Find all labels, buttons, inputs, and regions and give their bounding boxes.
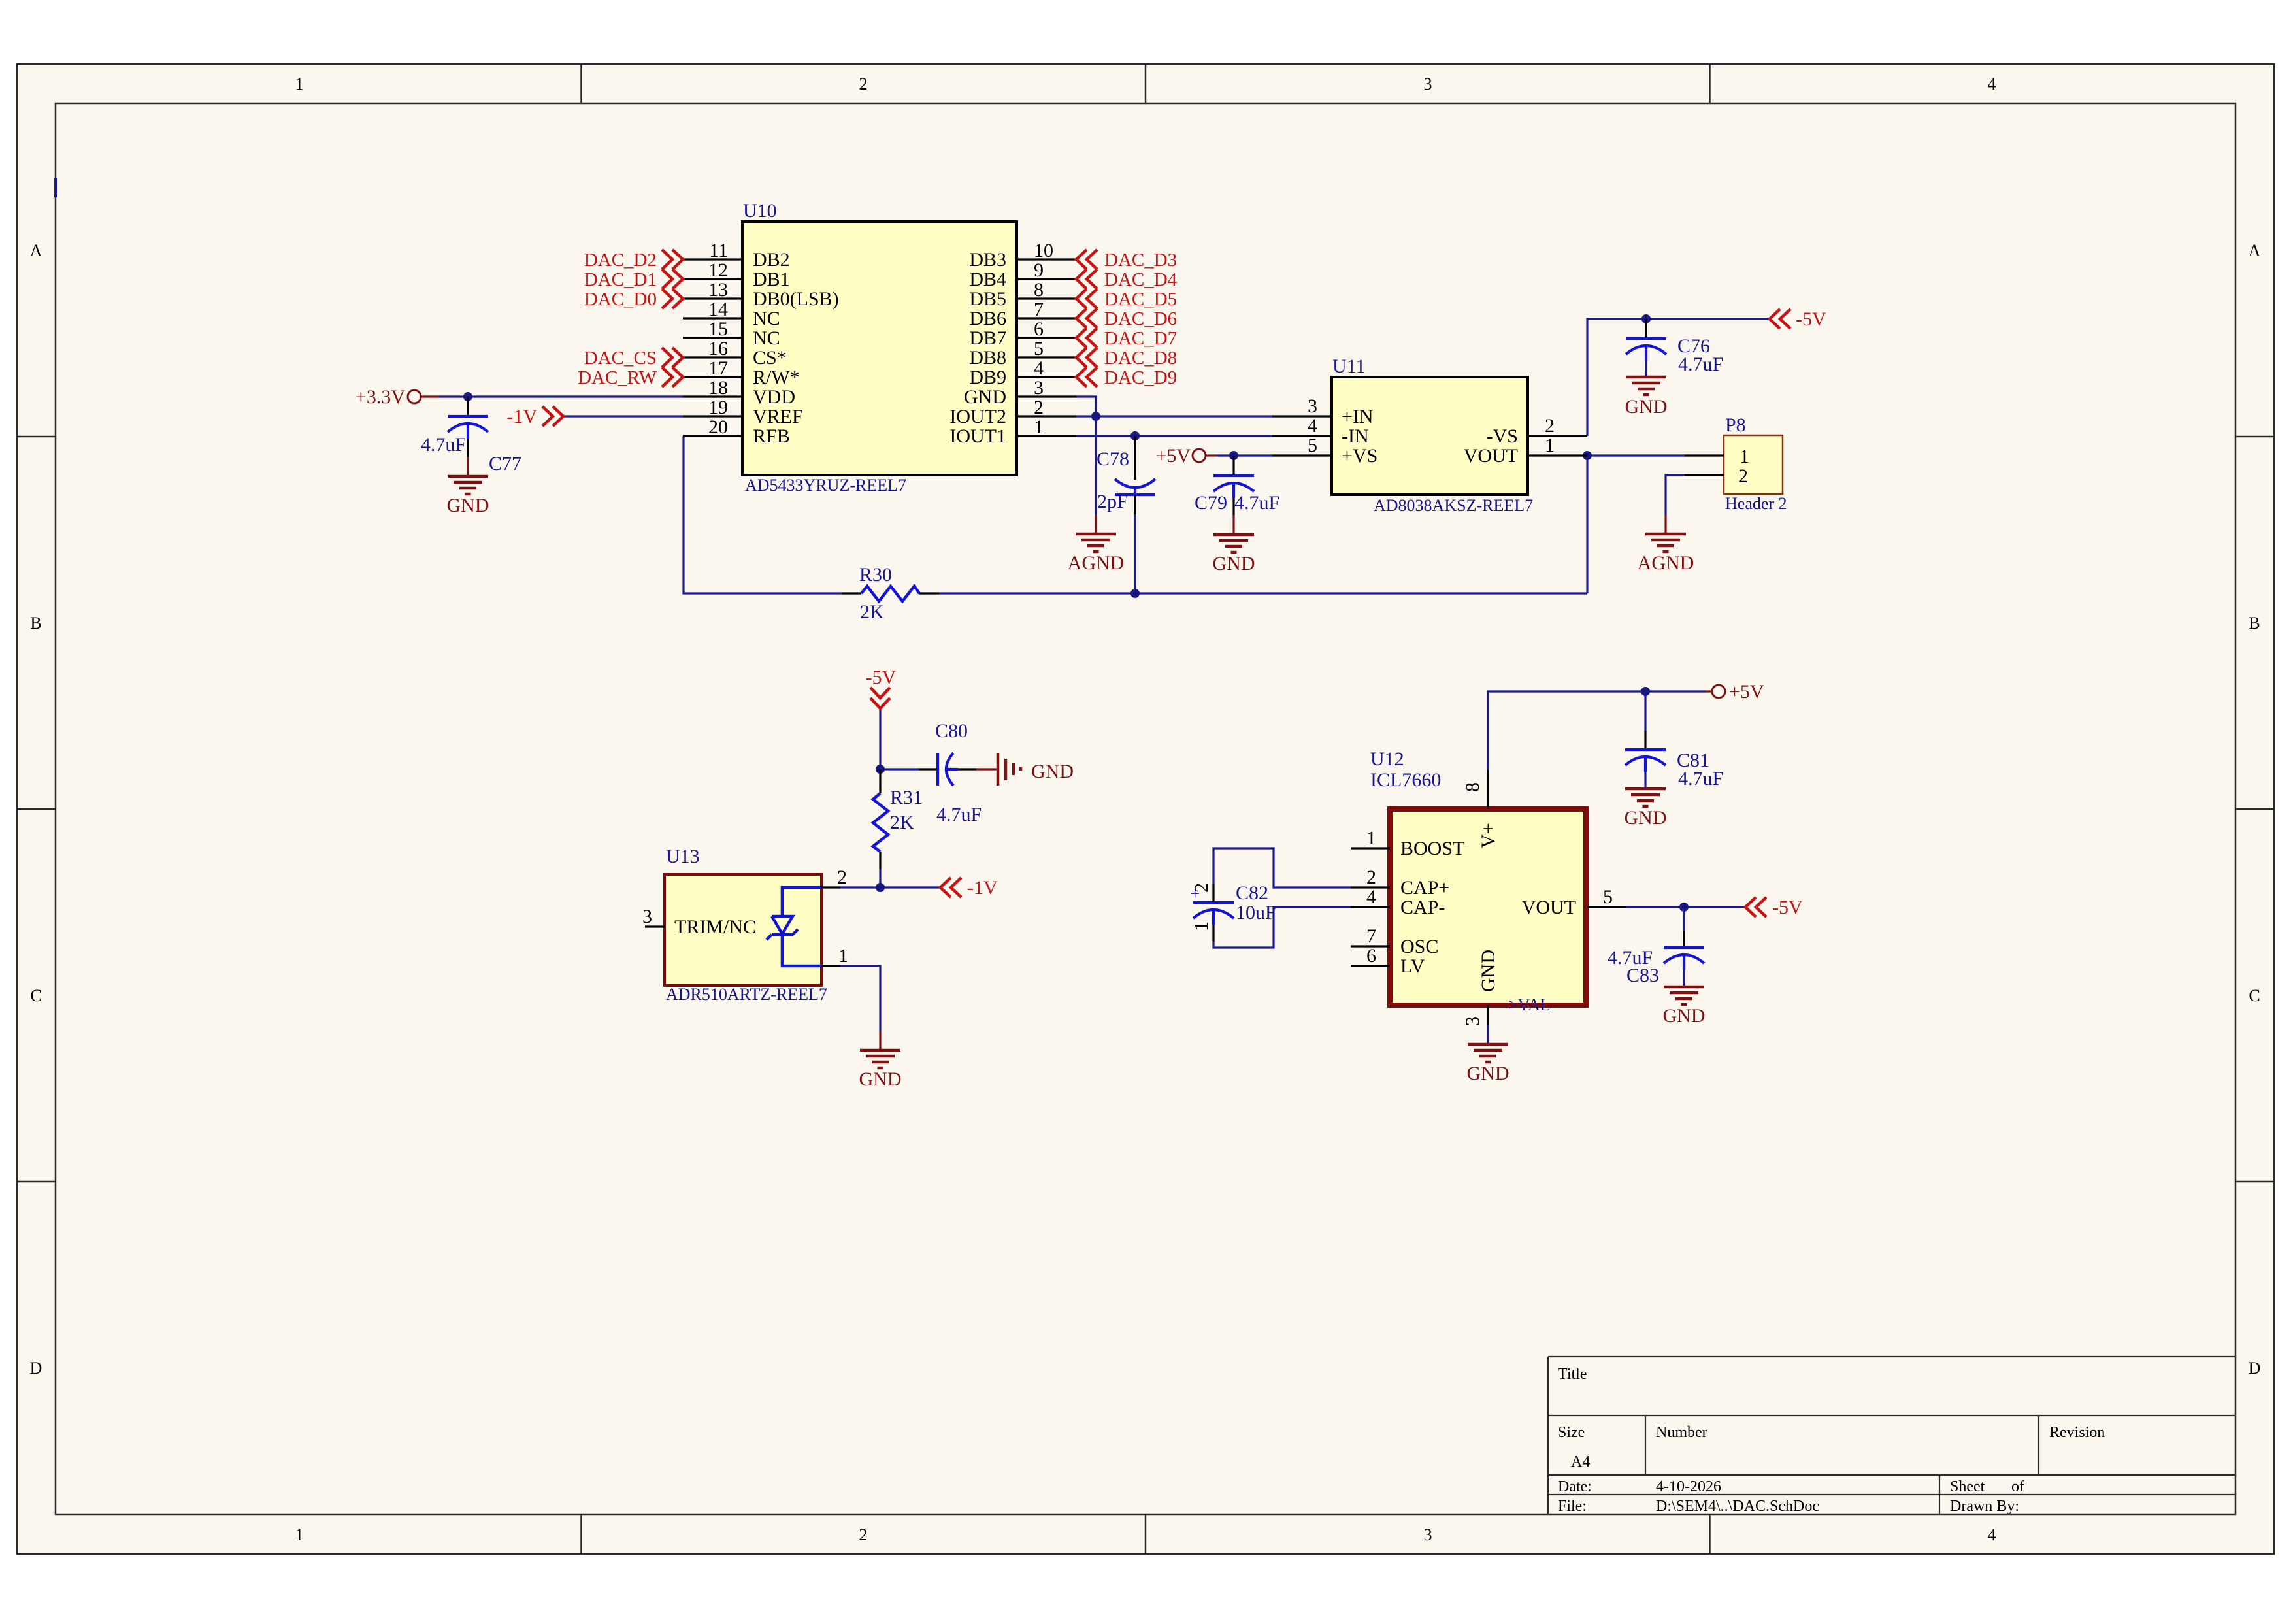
port DAC_D0	[584, 289, 683, 310]
svg-text:C83: C83	[1626, 965, 1659, 986]
title block text	[1558, 1366, 2105, 1515]
capacitor C80 (horizontal)	[919, 753, 976, 786]
svg-text:20: 20	[708, 416, 728, 438]
port DAC_D8	[1076, 348, 1177, 369]
wire C83 drop	[1683, 907, 1685, 931]
svg-text:2: 2	[1191, 883, 1212, 893]
svg-text:Title: Title	[1558, 1366, 1587, 1383]
wire C82 CAP- loop	[1213, 907, 1351, 948]
svg-text:2: 2	[859, 75, 868, 93]
P8 comment label	[1725, 494, 1787, 513]
U12 VAL text	[1508, 995, 1551, 1014]
capacitor C79	[1213, 456, 1254, 515]
C81 labels	[1677, 750, 1723, 789]
node VOUT junction	[1583, 451, 1592, 460]
svg-text:R30: R30	[859, 564, 892, 586]
port DAC_D6	[1076, 308, 1177, 329]
svg-text:1: 1	[1545, 435, 1555, 456]
C76 labels	[1677, 335, 1723, 375]
svg-text:of: of	[2011, 1478, 2024, 1495]
svg-text:5: 5	[1034, 338, 1044, 359]
C82 labels	[1236, 882, 1276, 923]
node +5V rail/C81 junction	[1641, 687, 1650, 696]
svg-text:DAC_D2: DAC_D2	[584, 250, 657, 271]
svg-text:2: 2	[837, 867, 847, 888]
svg-text:Drawn By:: Drawn By:	[1950, 1498, 2019, 1515]
power port +5V (U12)	[1712, 681, 1764, 703]
svg-text:4-10-2026: 4-10-2026	[1656, 1478, 1721, 1495]
C82 pin numbers (rotated)	[1191, 883, 1212, 931]
port DAC_D3	[1076, 250, 1177, 271]
svg-text:4.7uF: 4.7uF	[1678, 354, 1723, 375]
svg-text:V+: V+	[1477, 823, 1499, 848]
node IOUT2/AGND junction	[1091, 412, 1100, 421]
svg-text:DB4: DB4	[969, 269, 1006, 290]
svg-text:DAC_RW: DAC_RW	[578, 367, 657, 388]
svg-text:2: 2	[1738, 465, 1748, 487]
svg-text:5: 5	[1308, 435, 1317, 456]
svg-text:DAC_D6: DAC_D6	[1104, 308, 1177, 329]
svg-text:7: 7	[1034, 299, 1044, 320]
U12 comment label	[1370, 769, 1441, 791]
svg-text:-5V: -5V	[1772, 897, 1803, 918]
svg-text:DAC_D1: DAC_D1	[584, 269, 657, 290]
svg-text:NC: NC	[753, 308, 780, 329]
svg-text:DB2: DB2	[753, 249, 790, 271]
ground AGND below IOUT2 net	[1068, 514, 1125, 574]
wire U12 V+ pin 8 to +5V rail	[1488, 691, 1706, 770]
svg-text:2K: 2K	[890, 812, 914, 833]
svg-text:8: 8	[1462, 782, 1483, 792]
ground AGND below P8	[1638, 514, 1694, 574]
svg-text:2: 2	[1034, 397, 1044, 418]
svg-text:4: 4	[1366, 886, 1376, 908]
svg-text:1: 1	[1366, 827, 1376, 849]
svg-text:4.7uF: 4.7uF	[1678, 768, 1723, 789]
svg-text:R/W*: R/W*	[753, 367, 800, 388]
wire +5V to U11 +VS pin 5	[1206, 454, 1272, 456]
svg-text:11: 11	[709, 240, 728, 261]
svg-text:A4: A4	[1571, 1453, 1590, 1470]
U10 designator	[743, 200, 777, 222]
svg-text:DB6: DB6	[969, 308, 1006, 329]
svg-text:10uF: 10uF	[1236, 902, 1276, 923]
ground GND right of C80 (rotated)	[976, 753, 1074, 786]
svg-text:IOUT1: IOUT1	[949, 425, 1006, 447]
svg-text:IOUT2: IOUT2	[949, 406, 1006, 427]
svg-text:1: 1	[1034, 416, 1044, 438]
port DAC_D2	[584, 250, 683, 271]
R31 labels	[890, 787, 923, 833]
svg-text:DAC_D4: DAC_D4	[1104, 269, 1178, 290]
svg-text:-5V: -5V	[866, 667, 897, 688]
svg-text:D: D	[2249, 1359, 2261, 1378]
wire junction to C80	[880, 768, 919, 770]
svg-text:C80: C80	[935, 720, 968, 742]
svg-text:DAC_D3: DAC_D3	[1104, 250, 1177, 271]
C78 labels	[1097, 448, 1129, 512]
node feedback/C78 junction	[1130, 589, 1140, 598]
U11 part number label	[1374, 496, 1533, 515]
svg-text:-VS: -VS	[1487, 425, 1518, 447]
C77 labels	[421, 434, 521, 474]
svg-text:DB3: DB3	[969, 249, 1006, 271]
svg-text:Revision: Revision	[2049, 1424, 2105, 1441]
svg-text:C78: C78	[1097, 448, 1129, 470]
svg-text:B: B	[2249, 614, 2260, 633]
svg-text:BOOST: BOOST	[1400, 838, 1464, 859]
svg-text:+VS: +VS	[1342, 445, 1377, 467]
svg-text:4.7uF: 4.7uF	[936, 804, 982, 825]
svg-text:CAP+: CAP+	[1400, 877, 1449, 899]
svg-text:10: 10	[1034, 240, 1053, 261]
svg-text:C: C	[30, 986, 41, 1005]
svg-text:3: 3	[1424, 75, 1432, 93]
svg-text:4: 4	[1988, 75, 1996, 93]
svg-text:14: 14	[708, 299, 728, 320]
C79 labels	[1195, 492, 1279, 514]
svg-text:C77: C77	[489, 453, 521, 474]
svg-text:-IN: -IN	[1342, 425, 1369, 447]
svg-text:GND: GND	[1663, 1005, 1706, 1027]
zener diode inside U13	[767, 887, 821, 966]
svg-text:C79: C79	[1195, 492, 1227, 514]
svg-text:1: 1	[1191, 921, 1212, 931]
svg-text:DB8: DB8	[969, 347, 1006, 369]
wire IOUT1 to U11 -IN	[1076, 435, 1272, 437]
wire U12 VOUT to -5V port	[1626, 906, 1745, 908]
svg-text:D: D	[30, 1359, 42, 1378]
capacitor C78 (feedback 2pF)	[1115, 436, 1155, 593]
wire IOUT2 to U11 +IN	[1076, 415, 1272, 417]
node VDD junction	[463, 392, 472, 401]
svg-text:1: 1	[295, 75, 304, 93]
svg-text:P8: P8	[1725, 414, 1746, 436]
capacitor C76	[1626, 319, 1666, 377]
svg-text:>VAL: >VAL	[1508, 995, 1551, 1014]
svg-text:B: B	[30, 614, 41, 633]
svg-text:4: 4	[1034, 357, 1044, 379]
capacitor C83	[1664, 931, 1704, 987]
wire -5V port to R31 top junction	[879, 708, 881, 769]
svg-text:4: 4	[1988, 1525, 1996, 1544]
svg-text:DAC_D7: DAC_D7	[1104, 328, 1177, 349]
ground GND below C83	[1663, 987, 1706, 1027]
U13 part number label	[666, 985, 827, 1004]
port DAC_RW	[578, 367, 683, 388]
svg-text:AGND: AGND	[1068, 552, 1125, 574]
port -5V (above R31)	[866, 667, 897, 708]
wire +3.3V to VDD pin 18	[421, 395, 683, 397]
svg-text:1: 1	[295, 1525, 304, 1544]
svg-text:3: 3	[642, 906, 652, 927]
svg-text:16: 16	[708, 338, 728, 359]
ground GND below C76	[1625, 377, 1668, 418]
ground GND below C79	[1213, 515, 1255, 574]
svg-text:DB0(LSB): DB0(LSB)	[753, 288, 839, 310]
svg-text:-1V: -1V	[506, 406, 537, 427]
svg-text:Number: Number	[1656, 1424, 1707, 1441]
svg-text:U12: U12	[1370, 748, 1404, 770]
svg-text:18: 18	[708, 377, 728, 399]
svg-text:RFB: RFB	[753, 425, 790, 447]
svg-text:GND: GND	[1625, 396, 1668, 418]
wire -1V port to VREF pin 19	[563, 415, 683, 417]
svg-text:2pF: 2pF	[1097, 491, 1128, 512]
R30 labels	[859, 564, 892, 623]
svg-text:GND: GND	[1467, 1063, 1509, 1084]
svg-text:DB5: DB5	[969, 288, 1006, 310]
port -1V (U13)	[940, 877, 998, 899]
svg-text:2: 2	[1545, 415, 1555, 437]
ground GND below C81	[1625, 789, 1667, 829]
port -1V (VREF)	[506, 406, 563, 427]
svg-text:2: 2	[1366, 867, 1376, 888]
svg-text:AGND: AGND	[1638, 552, 1694, 574]
svg-text:C82: C82	[1236, 882, 1268, 904]
svg-text:-5V: -5V	[1796, 308, 1826, 330]
wire U13 pin 1 to GND	[840, 966, 880, 1031]
capacitor C77	[448, 397, 488, 457]
svg-text:1: 1	[838, 945, 848, 967]
svg-text:6: 6	[1034, 318, 1044, 340]
wire U11 -VS pin 2 up to -5V rail	[1587, 319, 1770, 436]
svg-text:GND: GND	[1031, 761, 1074, 782]
port DAC_D4	[1076, 269, 1178, 290]
svg-text:GND: GND	[1213, 553, 1255, 574]
port DAC_D5	[1076, 289, 1177, 310]
svg-text:-1V: -1V	[967, 877, 998, 899]
svg-text:3: 3	[1424, 1525, 1432, 1544]
IC U12 ICL7660 body	[1351, 770, 1626, 1026]
svg-text:C: C	[2249, 986, 2260, 1005]
svg-text:ADR510ARTZ-REEL7: ADR510ARTZ-REEL7	[666, 985, 827, 1004]
svg-text:U10: U10	[743, 200, 777, 222]
svg-text:+5V: +5V	[1729, 681, 1764, 703]
svg-text:5: 5	[1603, 886, 1613, 908]
port -5V (U12 VOUT)	[1745, 897, 1803, 918]
IC U13 ADR510 body	[642, 867, 848, 986]
svg-text:2K: 2K	[860, 601, 884, 623]
port DAC_D9	[1076, 367, 1177, 388]
svg-text:VDD: VDD	[753, 386, 795, 408]
resistor R30	[842, 586, 939, 601]
wire +5V circle lead	[1706, 690, 1712, 692]
C83 labels	[1608, 947, 1659, 986]
svg-text:GND: GND	[1625, 807, 1667, 829]
svg-text:4.7uF: 4.7uF	[1234, 492, 1279, 514]
svg-text:GND: GND	[447, 495, 489, 516]
capacitor C81	[1625, 691, 1666, 789]
wire P8 pin 2 to AGND	[1666, 475, 1685, 514]
header P8 body	[1685, 435, 1783, 494]
svg-text:Sheet: Sheet	[1950, 1478, 1985, 1495]
svg-text:DB1: DB1	[753, 269, 790, 290]
svg-text:AD5433YRUZ-REEL7: AD5433YRUZ-REEL7	[745, 476, 906, 495]
svg-text:U11: U11	[1332, 356, 1366, 377]
svg-text:+IN: +IN	[1342, 406, 1374, 427]
svg-text:12: 12	[708, 259, 728, 281]
svg-text:6: 6	[1366, 945, 1376, 967]
svg-text:9: 9	[1034, 259, 1044, 281]
svg-text:U13: U13	[666, 846, 700, 867]
wire C82 CAP+ loop	[1213, 848, 1351, 887]
svg-text:CS*: CS*	[753, 347, 787, 369]
svg-text:GND: GND	[859, 1069, 902, 1090]
svg-text:DAC_D9: DAC_D9	[1104, 367, 1177, 388]
node -5V/R31/C80 junction	[876, 765, 885, 774]
svg-text:R31: R31	[890, 787, 923, 808]
port DAC_D7	[1076, 328, 1177, 349]
svg-text:DAC_CS: DAC_CS	[584, 348, 657, 369]
svg-text:3: 3	[1308, 395, 1317, 417]
resistor R31	[873, 769, 888, 869]
svg-text:1: 1	[1740, 446, 1749, 467]
op-amp U11 AD8038 body	[1272, 377, 1587, 495]
svg-text:4.7uF: 4.7uF	[421, 434, 466, 456]
svg-text:13: 13	[708, 279, 728, 301]
svg-text:DB9: DB9	[969, 367, 1006, 388]
U10 part number label	[745, 476, 906, 495]
svg-text:8: 8	[1034, 279, 1044, 301]
svg-text:VOUT: VOUT	[1464, 445, 1518, 467]
svg-text:GND: GND	[1477, 950, 1499, 992]
power port +3.3V	[355, 386, 421, 408]
svg-text:17: 17	[708, 357, 728, 379]
C80 labels	[935, 720, 982, 825]
svg-text:3: 3	[1034, 377, 1044, 399]
wire VOUT to P8 pin 1	[1587, 454, 1685, 456]
svg-text:+3.3V: +3.3V	[355, 386, 405, 408]
svg-text:DAC_D0: DAC_D0	[584, 289, 657, 310]
capacitor C82 (polarized 10uF)	[1190, 884, 1234, 942]
svg-text:OSC: OSC	[1400, 936, 1438, 957]
svg-text:+5V: +5V	[1155, 445, 1191, 467]
svg-text:NC: NC	[753, 327, 780, 349]
port -5V (top right)	[1770, 308, 1826, 330]
svg-text:2: 2	[859, 1525, 868, 1544]
node -5V rail/C76 junction	[1641, 314, 1651, 323]
svg-text:3: 3	[1462, 1016, 1483, 1026]
svg-text:ICL7660: ICL7660	[1370, 769, 1441, 791]
node VOUT(U12)/C83 junction	[1679, 903, 1689, 912]
svg-text:Size: Size	[1558, 1424, 1585, 1441]
svg-text:DB7: DB7	[969, 327, 1006, 349]
ground GND below U13	[859, 1031, 902, 1090]
wire RFB feedback net: pin 20 down and across to VOUT	[684, 436, 1587, 593]
svg-text:DAC_D5: DAC_D5	[1104, 289, 1177, 310]
port DAC_CS	[584, 348, 683, 369]
svg-text:LV: LV	[1400, 955, 1425, 977]
svg-text:CAP-: CAP-	[1400, 897, 1445, 918]
svg-text:AD8038AKSZ-REEL7: AD8038AKSZ-REEL7	[1374, 496, 1533, 515]
svg-text:Header 2: Header 2	[1725, 494, 1787, 513]
stray wire stub on left inner border	[54, 178, 57, 197]
U13 designator	[666, 846, 700, 867]
U11 designator	[1332, 356, 1366, 377]
title block grid	[1548, 1357, 2235, 1514]
wire R31 bottom to U13 pin 2 and -1V port	[840, 869, 940, 887]
U12 designator	[1370, 748, 1404, 770]
svg-text:A: A	[30, 241, 42, 260]
ground GND below C77	[447, 457, 489, 516]
wire U10 GND pin 3 elbow to IOUT2 net	[1076, 397, 1096, 416]
ground GND below U12 pin 3	[1467, 1025, 1509, 1084]
wire AGND drop from IOUT2 net	[1095, 416, 1097, 514]
node IOUT1/C78 junction	[1130, 431, 1140, 440]
svg-text:DAC_D8: DAC_D8	[1104, 348, 1177, 369]
power port +5V (U11)	[1155, 445, 1206, 467]
node U13 pin2/R31 junction	[876, 883, 885, 892]
svg-text:VREF: VREF	[753, 406, 803, 427]
port DAC_D1	[584, 269, 683, 290]
svg-text:File:: File:	[1558, 1498, 1587, 1515]
svg-text:19: 19	[708, 397, 728, 418]
P8 designator	[1725, 414, 1746, 436]
svg-text:GND: GND	[964, 386, 1006, 408]
svg-text:D:\SEM4\..\DAC.SchDoc: D:\SEM4\..\DAC.SchDoc	[1656, 1498, 1819, 1515]
svg-text:VOUT: VOUT	[1522, 897, 1576, 918]
svg-text:TRIM/NC: TRIM/NC	[674, 916, 756, 938]
svg-text:15: 15	[708, 318, 728, 340]
svg-text:4: 4	[1308, 415, 1317, 437]
svg-text:Date:: Date:	[1558, 1478, 1592, 1495]
svg-text:7: 7	[1366, 925, 1376, 947]
node +VS/C79 junction	[1229, 451, 1238, 460]
svg-text:A: A	[2249, 241, 2261, 260]
op-amp U10 AD5433 DAC body	[683, 222, 1076, 475]
